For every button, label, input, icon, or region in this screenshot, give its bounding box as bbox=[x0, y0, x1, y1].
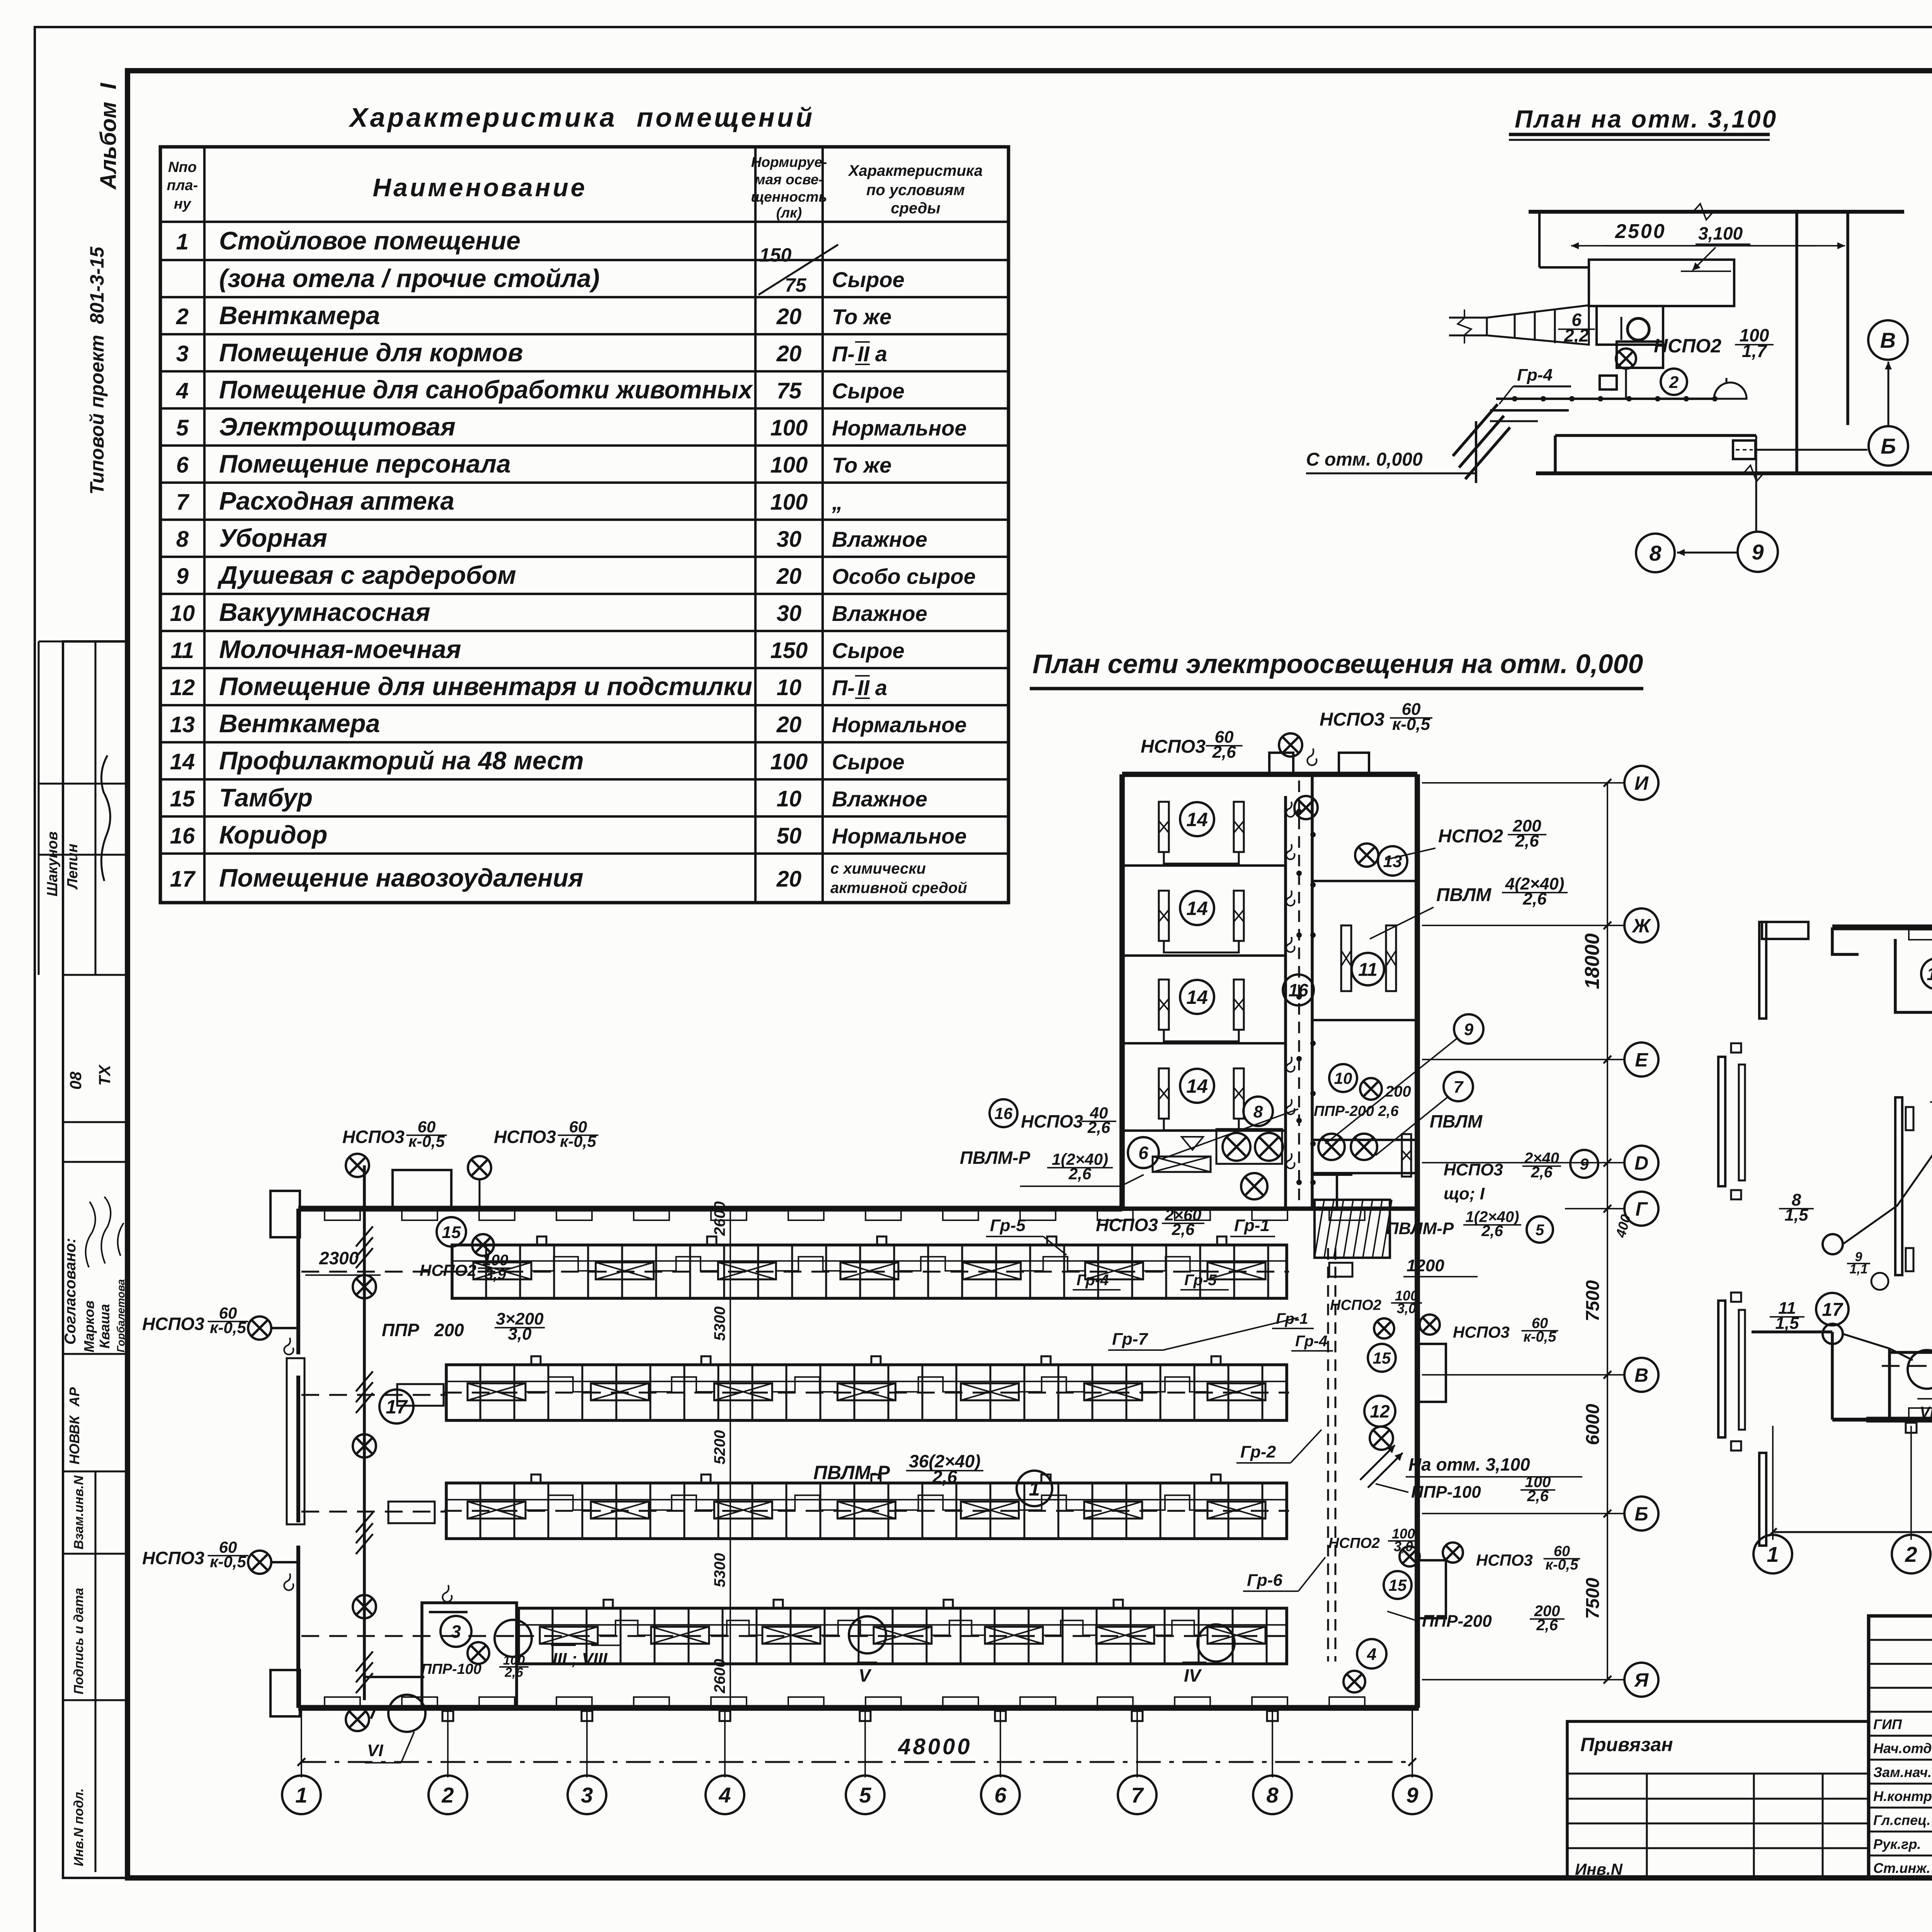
power bottom footings bbox=[1906, 1423, 1917, 1433]
svg-text:200: 200 bbox=[434, 1320, 464, 1340]
room 11 luminaires bbox=[1341, 925, 1351, 991]
row feeders dashed bbox=[301, 1271, 452, 1273]
svg-text:30: 30 bbox=[777, 601, 802, 626]
svg-text:17: 17 bbox=[1822, 1299, 1844, 1320]
svg-text:3,0: 3,0 bbox=[1397, 1301, 1416, 1316]
svg-text:Тамбур: Тамбур bbox=[219, 783, 313, 812]
svg-text:НСПО3: НСПО3 bbox=[142, 1548, 204, 1568]
svg-text:4: 4 bbox=[176, 378, 189, 403]
svg-text:9: 9 bbox=[1580, 1155, 1589, 1173]
svg-text:НСПО2: НСПО2 bbox=[1654, 335, 1721, 357]
svg-text:3: 3 bbox=[451, 1622, 461, 1642]
svg-text:3,100: 3,100 bbox=[1698, 223, 1743, 243]
svg-text:20: 20 bbox=[776, 712, 802, 737]
plan3100 node 9 circle bbox=[1738, 532, 1778, 572]
svg-text:2,6: 2,6 bbox=[1522, 889, 1547, 908]
plan3100 wiring run bbox=[1496, 398, 1716, 400]
svg-text:щенность: щенность bbox=[751, 189, 827, 205]
svg-text:100: 100 bbox=[770, 415, 808, 440]
svg-text:ППР-100: ППР-100 bbox=[1411, 1483, 1481, 1502]
power barn bottom-left walls bbox=[1752, 1330, 1832, 1333]
svg-text:ППР: ППР bbox=[382, 1320, 419, 1340]
svg-text:Рук.гр.: Рук.гр. bbox=[1873, 1836, 1921, 1852]
svg-text:5300: 5300 bbox=[711, 1306, 728, 1341]
svg-text:100: 100 bbox=[770, 749, 808, 774]
svg-text:Привязан: Привязан bbox=[1580, 1734, 1673, 1755]
svg-text:2: 2 bbox=[1669, 373, 1679, 392]
wing right room dividers bbox=[1312, 880, 1417, 882]
privyazan box bbox=[1567, 1721, 1869, 1878]
svg-text:7500: 7500 bbox=[1583, 1280, 1603, 1321]
svg-text:6: 6 bbox=[176, 452, 189, 478]
svg-text:Г: Г bbox=[1636, 1198, 1648, 1220]
svg-text:Нормальное: Нормальное bbox=[832, 416, 967, 440]
svg-text:НСПО3: НСПО3 bbox=[342, 1127, 405, 1147]
svg-text:1,5: 1,5 bbox=[1775, 1314, 1799, 1333]
svg-text:2,6: 2,6 bbox=[1515, 832, 1539, 850]
left outside lamps bbox=[248, 1316, 271, 1340]
wing corridor wiring riser bbox=[1298, 781, 1300, 1209]
svg-text:11: 11 bbox=[171, 638, 194, 663]
wing outline walls bbox=[1119, 774, 1125, 1209]
svg-text:Инв.N подл.: Инв.N подл. bbox=[71, 1788, 86, 1866]
top wall window marks bbox=[325, 1210, 360, 1220]
svg-text:ТХ: ТХ bbox=[95, 1064, 114, 1086]
power row4 feeder dash bbox=[1882, 1365, 1932, 1367]
right circle 15a bbox=[1368, 1344, 1396, 1372]
svg-text:среды: среды bbox=[891, 200, 940, 217]
svg-text:9: 9 bbox=[1752, 540, 1764, 564]
svg-text:II: II bbox=[857, 342, 870, 366]
svg-text:Уборная: Уборная bbox=[219, 524, 327, 552]
svg-text:2,6: 2,6 bbox=[1531, 1164, 1553, 1181]
right circle 12 bbox=[1364, 1396, 1395, 1427]
svg-text:НСПО3: НСПО3 bbox=[1320, 709, 1384, 730]
svg-text:Взам.инв.N: Взам.инв.N bbox=[71, 1475, 86, 1549]
svg-text:12: 12 bbox=[1370, 1401, 1390, 1422]
svg-text:6000: 6000 bbox=[1583, 1404, 1603, 1445]
svg-text:пла-: пла- bbox=[167, 177, 198, 194]
svg-text:13: 13 bbox=[1383, 852, 1402, 871]
svg-text:2,6: 2,6 bbox=[1527, 1488, 1549, 1505]
svg-text:10: 10 bbox=[170, 601, 195, 626]
svg-text:17: 17 bbox=[170, 867, 196, 892]
svg-text:Особо сырое: Особо сырое bbox=[832, 564, 976, 588]
svg-text:Венткамера: Венткамера bbox=[219, 709, 380, 738]
axis interior line bbox=[730, 1209, 731, 1708]
svg-text:Нормальное: Нормальное bbox=[832, 713, 967, 737]
svg-text:То же: То же bbox=[832, 304, 891, 329]
svg-text:II: II bbox=[857, 675, 870, 700]
svg-text:„: „ bbox=[832, 490, 843, 514]
svg-text:150: 150 bbox=[770, 638, 808, 663]
svg-text:мая осве-: мая осве- bbox=[755, 172, 823, 187]
svg-text:ПВЛМ-Р: ПВЛМ-Р bbox=[1386, 1219, 1454, 1238]
barn top wall bbox=[298, 1206, 1122, 1212]
svg-text:к-0,5: к-0,5 bbox=[210, 1318, 246, 1337]
svg-text:150: 150 bbox=[759, 244, 792, 266]
svg-text:Влажное: Влажное bbox=[832, 601, 927, 626]
svg-text:14: 14 bbox=[1186, 986, 1208, 1008]
leader circle 7 right bbox=[1444, 1072, 1473, 1101]
plan3100 bell symbol bbox=[1714, 383, 1747, 399]
axis circles bottom bbox=[282, 1776, 321, 1814]
svg-text:к-0,5: к-0,5 bbox=[210, 1553, 246, 1571]
svg-text:ППР-100: ППР-100 bbox=[421, 1661, 481, 1677]
svg-text:П-: П- bbox=[832, 675, 855, 700]
svg-text:20: 20 bbox=[776, 304, 802, 329]
svg-text:16: 16 bbox=[995, 1104, 1013, 1122]
svg-text:Венткамера: Венткамера bbox=[219, 301, 380, 330]
svg-text:14: 14 bbox=[170, 749, 195, 774]
light letter circles bbox=[1624, 766, 1658, 800]
svg-text:Альбом I: Альбом I bbox=[96, 82, 121, 190]
barn bottom wall bbox=[298, 1705, 1419, 1711]
svg-text:3: 3 bbox=[176, 341, 189, 366]
plan3100 lamp bbox=[1616, 349, 1636, 369]
room 17 circle bbox=[379, 1389, 413, 1423]
svg-text:2300: 2300 bbox=[319, 1248, 359, 1268]
svg-text:Лепин: Лепин bbox=[65, 844, 81, 890]
svg-text:Горбалетова: Горбалетова bbox=[115, 1279, 127, 1352]
svg-text:20: 20 bbox=[776, 867, 802, 892]
svg-text:Нормируе-: Нормируе- bbox=[751, 154, 827, 170]
svg-text:П-: П- bbox=[832, 342, 855, 366]
svg-text:Я: Я bbox=[1634, 1669, 1649, 1691]
svg-text:Молочная-моечная: Молочная-моечная bbox=[219, 635, 461, 663]
svg-text:Коридор: Коридор bbox=[219, 820, 327, 849]
power dim line 48000 bbox=[1773, 1531, 1932, 1533]
svg-text:Наименование: Наименование bbox=[373, 173, 587, 202]
svg-text:То же: То же bbox=[832, 453, 891, 477]
svg-text:IV: IV bbox=[1184, 1665, 1202, 1685]
power top wall window marks bbox=[1909, 930, 1932, 940]
svg-text:9: 9 bbox=[1464, 1020, 1474, 1039]
svg-text:Гр-4: Гр-4 bbox=[1517, 366, 1553, 384]
svg-text:2: 2 bbox=[441, 1783, 454, 1807]
svg-text:16: 16 bbox=[170, 823, 195, 849]
plan3100 fan unit bbox=[1617, 342, 1663, 368]
svg-text:Инв.N: Инв.N bbox=[1575, 1860, 1623, 1878]
svg-text:к-0,5: к-0,5 bbox=[1524, 1329, 1557, 1345]
svg-text:ПВЛМ-Р: ПВЛМ-Р bbox=[813, 1462, 890, 1483]
corridor circle 8 bbox=[1243, 1097, 1273, 1126]
svg-text:Электрощитовая: Электрощитовая bbox=[219, 412, 456, 441]
svg-text:20: 20 bbox=[776, 564, 802, 589]
svg-text:75: 75 bbox=[785, 274, 807, 296]
svg-text:1,5: 1,5 bbox=[1784, 1206, 1808, 1225]
svg-text:И: И bbox=[1634, 772, 1649, 794]
svg-text:Помещение для инвентаря и подс: Помещение для инвентаря и подстилки bbox=[219, 672, 752, 701]
leader circle 9 right bbox=[1454, 1014, 1483, 1044]
svg-text:Шакунов: Шакунов bbox=[44, 832, 61, 896]
svg-text:4: 4 bbox=[718, 1783, 731, 1807]
corridor circle 16 bbox=[1283, 975, 1314, 1005]
svg-text:18000: 18000 bbox=[1581, 933, 1604, 989]
svg-text:НСПО3: НСПО3 bbox=[1096, 1215, 1158, 1235]
svg-text:ПВЛМ: ПВЛМ bbox=[1430, 1111, 1483, 1131]
svg-text:ППР-200 2,6: ППР-200 2,6 bbox=[1314, 1103, 1399, 1119]
staff table grid bbox=[1869, 1616, 1932, 1878]
light letter dim line bbox=[1607, 783, 1608, 1680]
svg-text:2,6: 2,6 bbox=[1212, 743, 1236, 762]
svg-text:2,6: 2,6 bbox=[504, 1665, 523, 1680]
svg-text:План на отм. 3,100: План на отм. 3,100 bbox=[1515, 105, 1777, 133]
plan3100 room circle 2 bbox=[1661, 369, 1687, 395]
svg-text:Сырое: Сырое bbox=[832, 379, 905, 403]
svg-text:1: 1 bbox=[1029, 1478, 1040, 1500]
right circle 15b bbox=[1384, 1571, 1412, 1599]
ward rooms 14 circles and lamps bbox=[1180, 802, 1214, 836]
svg-text:На отм. 3,100: На отм. 3,100 bbox=[1408, 1454, 1530, 1475]
svg-text:Зам.нач.от: Зам.нач.от bbox=[1873, 1764, 1932, 1780]
svg-text:Согласовано:: Согласовано: bbox=[62, 1238, 79, 1345]
svg-text:2,6: 2,6 bbox=[1481, 1223, 1503, 1240]
svg-text:9: 9 bbox=[1406, 1783, 1418, 1807]
mid bottom circle IV bbox=[1197, 1624, 1235, 1662]
svg-text:ГИП: ГИП bbox=[1873, 1716, 1902, 1732]
plan3100 node Б circle bbox=[1869, 426, 1908, 466]
svg-text:15: 15 bbox=[1389, 1576, 1407, 1594]
power room 17 bbox=[1816, 1293, 1849, 1325]
svg-text:НСПО3: НСПО3 bbox=[1141, 736, 1206, 757]
mid bottom circle V bbox=[849, 1616, 886, 1653]
plan3100 dim 2500 bbox=[1571, 245, 1816, 247]
svg-text:Характеристика помещений: Характеристика помещений bbox=[348, 102, 815, 133]
svg-text:НСПО2: НСПО2 bbox=[1328, 1535, 1380, 1551]
svg-text:1: 1 bbox=[295, 1783, 307, 1807]
svg-text:активной средой: активной средой bbox=[830, 879, 967, 896]
svg-text:що; I: що; I bbox=[1444, 1184, 1485, 1203]
svg-text:Влажное: Влажное bbox=[832, 527, 927, 551]
switch room hatch bbox=[1315, 1200, 1390, 1258]
svg-text:2,6: 2,6 bbox=[1536, 1617, 1558, 1634]
svg-text:Расходная аптека: Расходная аптека bbox=[219, 486, 454, 515]
svg-text:План сети электроосвещения на: План сети электроосвещения на отм. 0,000 bbox=[1032, 649, 1643, 679]
svg-text:Нормальное: Нормальное bbox=[832, 824, 967, 848]
svg-text:Сырое: Сырое bbox=[832, 750, 905, 774]
svg-text:Ст.инж.: Ст.инж. bbox=[1873, 1860, 1930, 1876]
stall row 1 bbox=[452, 1245, 1287, 1298]
svg-text:Ж: Ж bbox=[1631, 915, 1651, 937]
svg-text:НСПО3: НСПО3 bbox=[494, 1127, 556, 1147]
svg-text:5: 5 bbox=[859, 1783, 871, 1807]
rooms 9 and 7 lamps bbox=[1318, 1134, 1345, 1160]
room 10 circle bbox=[1329, 1064, 1357, 1092]
power axis stubs bbox=[1772, 1426, 1774, 1540]
svg-text:5200: 5200 bbox=[711, 1430, 728, 1464]
barn bottom footings bbox=[442, 1711, 453, 1721]
plan3100 node Б link bbox=[1756, 449, 1867, 451]
svg-text:Гр-2: Гр-2 bbox=[1240, 1442, 1276, 1461]
svg-text:1,7: 1,7 bbox=[1742, 341, 1767, 361]
svg-text:Характеристика: Характеристика bbox=[848, 162, 983, 179]
svg-text:Подпись и дата: Подпись и дата bbox=[71, 1588, 86, 1694]
svg-text:(зона отела / прочие стойла): (зона отела / прочие стойла) bbox=[219, 264, 600, 293]
svg-text:Гр-7: Гр-7 bbox=[1112, 1330, 1148, 1349]
svg-text:к-0,5: к-0,5 bbox=[408, 1132, 445, 1150]
svg-text:10: 10 bbox=[1334, 1069, 1352, 1087]
plan3100 right wall bbox=[1795, 212, 1798, 473]
svg-text:Гр-6: Гр-6 bbox=[1247, 1571, 1282, 1590]
svg-text:с химически: с химически bbox=[830, 860, 926, 877]
svg-text:100: 100 bbox=[770, 490, 808, 515]
svg-text:к-0,5: к-0,5 bbox=[1546, 1557, 1579, 1573]
svg-text:Б: Б bbox=[1634, 1503, 1648, 1525]
label 16 NSPO3 40/2.6 bbox=[990, 1099, 1017, 1127]
plan3100 bottom wall bbox=[1536, 471, 1932, 475]
svg-text:III ; VIII: III ; VIII bbox=[553, 1650, 608, 1668]
svg-text:2,6: 2,6 bbox=[1068, 1165, 1092, 1183]
svg-text:12: 12 bbox=[170, 675, 195, 700]
stall row 3 bbox=[446, 1483, 1287, 1539]
row 2 left stub boxes bbox=[397, 1384, 444, 1406]
svg-text:НСПО3: НСПО3 bbox=[1453, 1323, 1510, 1341]
svg-text:Стойловое помещение: Стойловое помещение bbox=[219, 226, 520, 255]
svg-text:17: 17 bbox=[386, 1396, 408, 1418]
top-left lamps bbox=[468, 1156, 491, 1179]
room characteristics table grid bbox=[160, 147, 1009, 903]
svg-text:Вакуумнасосная: Вакуумнасосная bbox=[219, 598, 430, 626]
svg-text:Гл.спец.: Гл.спец. bbox=[1873, 1812, 1930, 1828]
svg-text:5300: 5300 bbox=[711, 1553, 728, 1587]
svg-text:V: V bbox=[859, 1665, 872, 1685]
svg-text:7500: 7500 bbox=[1583, 1578, 1603, 1619]
plan3100 arrow 9 to 8 bbox=[1677, 552, 1737, 554]
svg-text:АР: АР bbox=[66, 1387, 82, 1407]
right arrows bbox=[1360, 1445, 1395, 1480]
svg-text:50: 50 bbox=[777, 823, 802, 849]
svg-text:НСПО3: НСПО3 bbox=[1476, 1551, 1533, 1569]
svg-text:а: а bbox=[875, 342, 887, 366]
power top porch room 15 bbox=[1832, 927, 1859, 954]
svg-text:2,6: 2,6 bbox=[1087, 1118, 1111, 1136]
svg-text:ПВЛМ-Р: ПВЛМ-Р bbox=[960, 1148, 1031, 1168]
plan3100 switch box bbox=[1600, 376, 1617, 389]
svg-text:к-0,5: к-0,5 bbox=[560, 1132, 596, 1150]
svg-text:7: 7 bbox=[1131, 1783, 1144, 1807]
svg-text:10: 10 bbox=[777, 675, 802, 700]
svg-text:7: 7 bbox=[1454, 1078, 1464, 1097]
svg-text:5: 5 bbox=[1536, 1221, 1544, 1238]
plan3100 node 9 riser bbox=[1755, 435, 1757, 531]
svg-text:2600: 2600 bbox=[711, 1201, 728, 1236]
svg-text:Гр-1: Гр-1 bbox=[1234, 1216, 1270, 1235]
power axis circles bbox=[1753, 1535, 1792, 1573]
power bottom wall window marks bbox=[1909, 1408, 1932, 1418]
plan3100 top wall bbox=[1529, 210, 1904, 214]
room 13 lamp and circle bbox=[1355, 844, 1378, 867]
plan3100 incoming feeders hatch bbox=[1453, 404, 1498, 456]
wing left room dividers bbox=[1124, 864, 1286, 867]
svg-text:Сырое: Сырое bbox=[832, 267, 905, 292]
right circle 4 bbox=[1357, 1639, 1386, 1668]
svg-text:а: а bbox=[875, 675, 887, 700]
svg-text:по условиям: по условиям bbox=[866, 182, 965, 199]
power barn bottom wall bbox=[1866, 1417, 1932, 1423]
wing corridor walls bbox=[1284, 796, 1287, 1209]
bottom-left lamp and circle bbox=[388, 1695, 425, 1732]
plan3100 node 8 circle bbox=[1636, 534, 1675, 572]
svg-text:5: 5 bbox=[176, 415, 189, 440]
svg-text:ПВЛМ: ПВЛМ bbox=[1436, 885, 1492, 905]
svg-text:100: 100 bbox=[770, 452, 808, 478]
svg-text:В: В bbox=[1880, 328, 1896, 352]
top lamp2 bbox=[1294, 796, 1318, 819]
light letter axis stubs bbox=[1422, 782, 1625, 784]
svg-text:Гр-5: Гр-5 bbox=[990, 1216, 1026, 1235]
svg-text:НОВ: НОВ bbox=[66, 1434, 82, 1464]
svg-text:Гр-5: Гр-5 bbox=[1184, 1272, 1217, 1289]
svg-text:1: 1 bbox=[176, 230, 189, 255]
wing top porch notches bbox=[1269, 753, 1293, 775]
svg-text:Помещение персонала: Помещение персонала bbox=[219, 449, 511, 478]
svg-text:6: 6 bbox=[994, 1783, 1007, 1807]
svg-text:2,6: 2,6 bbox=[932, 1467, 957, 1487]
svg-text:VII: VII bbox=[1920, 1404, 1932, 1421]
svg-text:Помещение навозоудаления: Помещение навозоудаления bbox=[219, 864, 583, 892]
svg-text:В: В bbox=[1634, 1364, 1648, 1386]
svg-text:2: 2 bbox=[176, 304, 189, 329]
svg-text:20: 20 bbox=[776, 341, 802, 366]
bottom wall window marks bbox=[325, 1697, 360, 1707]
svg-text:Помещение для санобработки жив: Помещение для санобработки животных bbox=[219, 375, 753, 404]
porch room 15 top-left bbox=[393, 1170, 451, 1209]
svg-text:14: 14 bbox=[1186, 1075, 1208, 1097]
svg-text:15: 15 bbox=[442, 1223, 461, 1242]
barn left wall bbox=[296, 1209, 300, 1354]
svg-text:Н.контр.: Н.контр. bbox=[1873, 1788, 1932, 1804]
svg-text:14: 14 bbox=[1186, 809, 1208, 830]
stall row 2 bbox=[446, 1365, 1287, 1420]
svg-text:6: 6 bbox=[1138, 1143, 1148, 1163]
svg-text:НСПО3: НСПО3 bbox=[142, 1314, 204, 1334]
svg-text:Влажное: Влажное bbox=[832, 787, 927, 811]
svg-text:3,0: 3,0 bbox=[508, 1325, 532, 1344]
svg-text:14: 14 bbox=[1186, 898, 1208, 919]
left feeder riser bbox=[363, 1165, 366, 1700]
feeder lamps bbox=[346, 1154, 369, 1177]
svg-text:10: 10 bbox=[777, 786, 802, 811]
svg-text:8: 8 bbox=[1253, 1102, 1263, 1121]
stall row 4 bbox=[519, 1608, 1287, 1664]
axis dim line 48000 bbox=[301, 1761, 1412, 1763]
svg-text:(лк): (лк) bbox=[776, 205, 802, 221]
svg-text:Типовой проект 801-3-15: Типовой проект 801-3-15 bbox=[86, 246, 108, 495]
plan3100 node B circle bbox=[1868, 320, 1908, 360]
room 8 lamps bbox=[1223, 1133, 1250, 1161]
svg-text:8: 8 bbox=[1266, 1783, 1279, 1807]
svg-text:48000: 48000 bbox=[898, 1734, 972, 1759]
power left wall pieces bbox=[1718, 1057, 1725, 1186]
svg-text:4: 4 bbox=[1367, 1645, 1376, 1664]
svg-text:13: 13 bbox=[170, 712, 195, 737]
right riser dashed bbox=[1327, 1248, 1329, 1662]
svg-text:3,9: 3,9 bbox=[485, 1266, 506, 1283]
svg-text:ну: ну bbox=[174, 196, 192, 212]
svg-text:Марков: Марков bbox=[81, 1301, 97, 1352]
svg-text:30: 30 bbox=[777, 527, 802, 552]
svg-text:ППР-200: ППР-200 bbox=[1422, 1612, 1492, 1631]
svg-text:7: 7 bbox=[176, 490, 190, 515]
plan3100 left wall bbox=[1538, 212, 1541, 267]
barn left porches bbox=[270, 1191, 300, 1237]
svg-text:15: 15 bbox=[1927, 964, 1932, 984]
right wall tambour boxes bbox=[1419, 1344, 1446, 1402]
axis stubs bottom bbox=[301, 1709, 302, 1777]
svg-text:1200: 1200 bbox=[1406, 1256, 1444, 1275]
room 1 circle bbox=[1017, 1471, 1052, 1506]
